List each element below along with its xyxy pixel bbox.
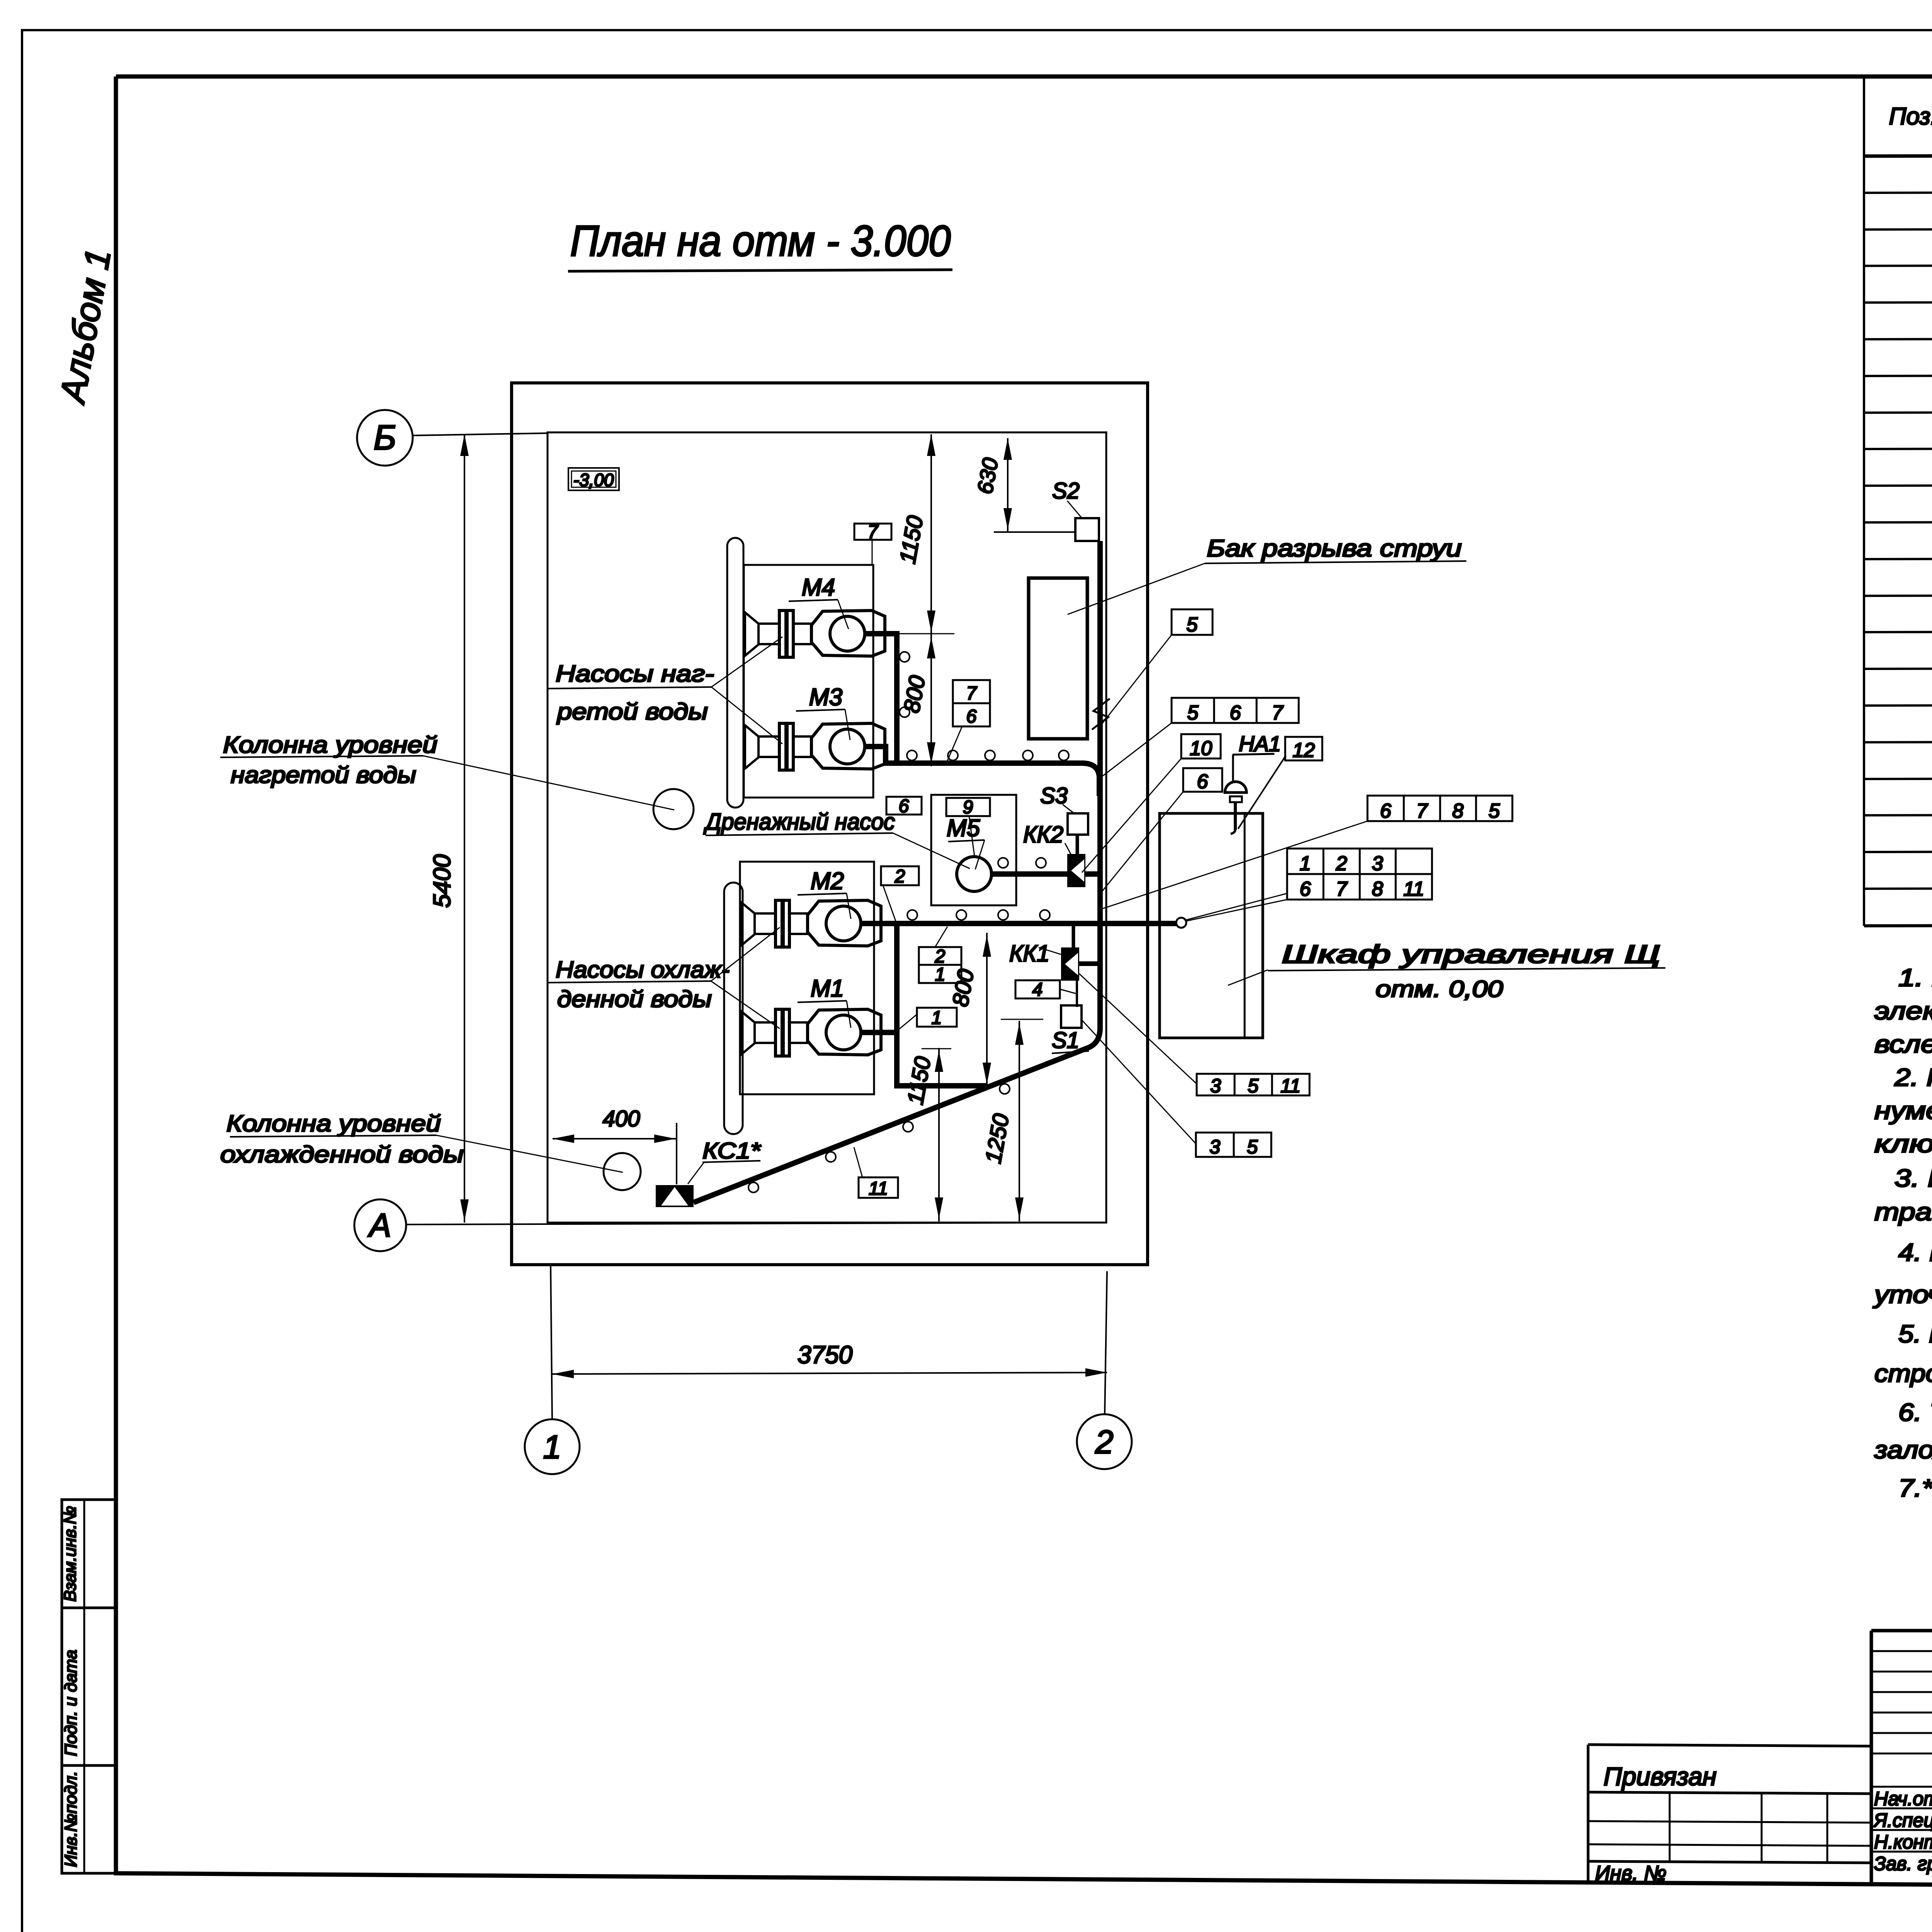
svg-text:S1: S1 — [1052, 1028, 1079, 1053]
junction circles diagonal — [748, 1084, 1010, 1192]
svg-text:800: 800 — [947, 967, 979, 1009]
svg-text:М2: М2 — [811, 868, 844, 895]
svg-text:3: 3 — [1210, 1075, 1221, 1097]
S2 box — [1075, 518, 1099, 541]
svg-text:5400: 5400 — [429, 854, 456, 908]
trass boxes 1 2 3 / 6 7 8 11 — [1287, 849, 1432, 874]
svg-text:800: 800 — [899, 673, 930, 715]
svg-text:S2: S2 — [1052, 478, 1080, 503]
svg-text:2. Позиции монтируемых при: 2. Позиции монтируемых приборов и аппара… — [1894, 1063, 1932, 1091]
svg-text:А: А — [367, 1207, 391, 1244]
inner wall — [548, 432, 1106, 1223]
axis line А — [406, 1223, 1106, 1225]
axis circle 1 — [525, 1419, 580, 1474]
svg-text:отм. 0,00: отм. 0,00 — [1376, 976, 1503, 1002]
svg-text:12: 12 — [1293, 739, 1315, 762]
title block attachment table — [1588, 1745, 1871, 1883]
dimension 1150 lower — [938, 1048, 940, 1221]
svg-text:Н.конт.: Н.конт. — [1874, 1831, 1932, 1853]
wire riser along wall — [694, 541, 1100, 1202]
svg-text:7: 7 — [868, 522, 879, 542]
trass box 4 — [1015, 980, 1060, 998]
trass box 2 — [881, 866, 919, 885]
junction circles M2 run — [907, 910, 1050, 920]
svg-text:2: 2 — [1095, 1424, 1113, 1461]
trass box 1 — [917, 1008, 957, 1027]
svg-text:уточнить при монтаже .: уточнить при монтаже . — [1872, 1281, 1932, 1308]
signature grid — [1871, 1631, 1932, 1889]
KK2 symbol — [1067, 854, 1085, 887]
svg-text:7: 7 — [1336, 878, 1348, 900]
break mark on riser — [1092, 699, 1110, 730]
leader to trass 1 2 3 box — [1186, 893, 1287, 920]
svg-text:Дренажный насос: Дренажный насос — [703, 809, 895, 835]
trass boxes 5 6 7 — [1172, 698, 1214, 723]
svg-text:Альбом 1: Альбом 1 — [53, 246, 119, 407]
dimension 800 upper — [927, 637, 935, 658]
svg-text:5: 5 — [1489, 800, 1500, 822]
svg-text:2: 2 — [895, 866, 905, 887]
svg-text:6: 6 — [1197, 770, 1208, 793]
trass box 6 — [886, 797, 922, 815]
dimension 800 lower — [986, 933, 988, 1087]
upper suction pipe — [727, 538, 743, 808]
trass boxes 3 5 — [1196, 1133, 1234, 1157]
svg-text:НА1: НА1 — [1239, 731, 1281, 756]
svg-text:Я.спец.: Я.спец. — [1873, 1810, 1932, 1831]
left stamp box Инв.№подл. — [62, 1765, 116, 1873]
trass box 10 — [1181, 734, 1221, 759]
svg-text:5. Монтаж электроустановок: 5. Монтаж электроустановок выполнить сог… — [1898, 1320, 1932, 1348]
svg-text:4: 4 — [1032, 980, 1043, 1000]
svg-text:трасс проводок .: трасс проводок . — [1874, 1198, 1932, 1226]
svg-text:План на отм - 3.000: План на отм - 3.000 — [570, 217, 951, 265]
drawing frame — [116, 75, 1932, 79]
wire M5 to KK2 to riser — [991, 871, 1100, 877]
svg-text:1: 1 — [1300, 852, 1311, 875]
dimension 1250 — [1019, 1021, 1020, 1221]
svg-text:1: 1 — [543, 1429, 561, 1466]
svg-text:9: 9 — [963, 797, 973, 818]
svg-text:денной воды: денной воды — [557, 986, 712, 1012]
svg-text:Инв.№подл.: Инв.№подл. — [61, 1771, 80, 1867]
svg-text:1: 1 — [932, 1008, 942, 1028]
svg-text:М4: М4 — [802, 574, 835, 601]
svg-text:3: 3 — [1372, 852, 1383, 875]
svg-text:Инв. №: Инв. № — [1595, 1862, 1667, 1885]
svg-text:строительным нормам и пра: строительным нормам и правилам СНиП 3. 0… — [1874, 1359, 1932, 1387]
tank Бак разрыва струи — [1029, 578, 1087, 739]
svg-text:КС1*: КС1* — [702, 1138, 762, 1163]
svg-text:1: 1 — [935, 964, 946, 985]
wire KK1 drop — [1072, 923, 1075, 947]
svg-text:Нач.отд.: Нач.отд. — [1874, 1788, 1932, 1810]
junction circle at run end — [1176, 918, 1186, 928]
svg-text:1150: 1150 — [895, 514, 928, 566]
pump M3 — [745, 723, 885, 770]
pump M2 — [741, 900, 881, 947]
table headers — [1889, 85, 1932, 141]
svg-text:5: 5 — [1248, 1075, 1259, 1097]
svg-text:8: 8 — [1452, 800, 1464, 822]
dimension 5400 — [464, 434, 465, 1223]
wire M1 to diagonal — [897, 1032, 988, 1086]
elevation mark -3,00 — [568, 468, 619, 490]
svg-text:6: 6 — [1230, 702, 1241, 724]
pump M5 — [957, 857, 992, 891]
svg-text:Насосы наг-: Насосы наг- — [556, 661, 714, 687]
svg-text:М1: М1 — [811, 975, 844, 1002]
svg-text:Шкаф управления Щ: Шкаф управления Щ — [1282, 940, 1660, 968]
junction circles M3 run — [900, 652, 1069, 760]
svg-text:6: 6 — [1380, 800, 1391, 822]
svg-text:6: 6 — [966, 706, 977, 727]
trass boxes 7/6 — [953, 680, 990, 703]
svg-text:7: 7 — [966, 683, 978, 704]
junction circles M5 run — [998, 858, 1046, 868]
svg-text:вследствие нарушения изоляци: вследствие нарушения изоляции, занулить … — [1874, 1030, 1932, 1058]
svg-text:3. В прямоугольниках на вы: 3. В прямоугольниках на выносках указаны… — [1895, 1164, 1932, 1192]
svg-text:400: 400 — [603, 1106, 640, 1131]
lower pump base frame — [740, 862, 874, 1094]
svg-text:Зав. гр.: Зав. гр. — [1874, 1853, 1932, 1874]
svg-text:7.*Устанавливается по проек: 7.*Устанавливается по проекту „АТХ" лист… — [1898, 1474, 1932, 1502]
wire M4 branch — [865, 634, 897, 763]
svg-text:Взам.инв.№: Взам.инв.№ — [61, 1506, 80, 1602]
svg-text:-3,00: -3,00 — [573, 470, 614, 490]
svg-text:11: 11 — [1403, 878, 1424, 900]
svg-text:Поз.: Поз. — [1889, 103, 1932, 130]
parts table grid — [1864, 77, 1932, 926]
svg-text:1150: 1150 — [903, 1055, 936, 1107]
svg-text:4. Размещение проводок, при: 4. Размещение проводок, приборов и аппар… — [1898, 1238, 1932, 1266]
trass box 6 right — [1183, 768, 1222, 792]
dimension 630 — [1007, 438, 1009, 532]
level column circle lower — [604, 1153, 641, 1190]
trass box 7 top — [854, 524, 891, 540]
svg-text:3750: 3750 — [798, 1341, 853, 1369]
wire M2 run to cabinet — [862, 921, 1176, 926]
svg-text:заложить на отм. - 3.050: заложить на отм. - 3.050 . — [1874, 1436, 1932, 1464]
svg-text:Б: Б — [374, 418, 396, 457]
trass box 12 — [1285, 737, 1322, 760]
svg-text:8: 8 — [1372, 878, 1383, 900]
drainage pump M5 enclosure — [931, 795, 1016, 905]
left stamp box Подп. и дата — [62, 1608, 116, 1765]
svg-text:охлажденной воды: охлажденной воды — [220, 1141, 464, 1167]
svg-text:Колонна уровней: Колонна уровней — [226, 1111, 441, 1136]
trass boxes 2/1 — [919, 947, 961, 965]
svg-text:М5: М5 — [947, 815, 980, 842]
wire M3 run — [866, 747, 1099, 796]
svg-text:1. Все металлические нормаль: 1. Все металлические нормально нетоковед… — [1898, 964, 1932, 992]
svg-text:6. Трубы для кабелей про: 6. Трубы для кабелей прокладываемых в по… — [1898, 1398, 1932, 1426]
svg-text:нумерация и тип проводок: нумерация и тип проводок соответствуют с… — [1874, 1097, 1932, 1124]
svg-text:КК2: КК2 — [1023, 821, 1063, 847]
dimension 3750 — [552, 1372, 1107, 1374]
dimension 400 — [553, 1138, 676, 1139]
svg-text:Колонна уровней: Колонна уровней — [223, 732, 437, 758]
svg-text:ключения листы 8,9.: ключения листы 8,9. — [1874, 1130, 1932, 1158]
svg-text:5: 5 — [1187, 614, 1198, 636]
lower suction pipe — [724, 883, 743, 1134]
dimension 1150 upper — [930, 434, 932, 766]
cable outlet KC1 — [656, 1185, 694, 1207]
svg-text:нагретой воды: нагретой воды — [231, 762, 416, 788]
svg-text:Привязан: Привязан — [1604, 1762, 1716, 1791]
svg-text:2: 2 — [1336, 852, 1347, 875]
svg-text:6: 6 — [899, 796, 909, 816]
svg-text:7: 7 — [1417, 800, 1429, 822]
svg-text:электроустановок, могущие ок: электроустановок, могущие оказаться под … — [1874, 997, 1932, 1025]
svg-text:3: 3 — [1209, 1136, 1220, 1158]
svg-text:11: 11 — [1281, 1075, 1301, 1097]
svg-text:Подп. и дата: Подп. и дата — [61, 1650, 80, 1756]
trass boxes 3 5 11 — [1197, 1074, 1235, 1095]
trass box 9 — [946, 798, 990, 816]
svg-text:630: 630 — [973, 456, 1003, 496]
axis circle А — [354, 1199, 406, 1251]
axis circle 2 — [1077, 1414, 1132, 1469]
left stamp box Взам.инв.№ — [62, 1500, 116, 1608]
svg-text:10: 10 — [1190, 737, 1212, 760]
cabinet Шкаф управления — [1160, 813, 1263, 1038]
level column circle upper — [653, 789, 694, 829]
svg-text:2: 2 — [935, 946, 946, 967]
svg-text:КК1: КК1 — [1009, 940, 1049, 966]
svg-text:6: 6 — [1300, 878, 1311, 900]
trass box 11 diagonal — [859, 1177, 898, 1198]
axis circle Б — [357, 410, 413, 466]
svg-text:Насосы охлаж-: Насосы охлаж- — [556, 957, 730, 983]
upper pump base frame — [744, 565, 873, 798]
svg-text:11: 11 — [869, 1179, 888, 1199]
notes text — [1872, 964, 1932, 1502]
svg-text:М3: М3 — [809, 684, 842, 711]
KK1 symbol — [1061, 947, 1079, 981]
wire M1 branch — [862, 923, 897, 1032]
outer wall — [512, 383, 1148, 1265]
trass box 5 — [1172, 609, 1213, 635]
svg-text:5: 5 — [1247, 1136, 1258, 1158]
pump M1 — [741, 1009, 881, 1056]
svg-text:Бак разрыва струи: Бак разрыва струи — [1207, 535, 1462, 562]
S1 box — [1061, 1005, 1082, 1028]
pump M4 — [745, 611, 885, 657]
svg-text:7: 7 — [1272, 702, 1284, 724]
S3 box — [1068, 813, 1088, 835]
svg-text:ретой воды: ретой воды — [556, 699, 708, 724]
svg-text:1250: 1250 — [981, 1112, 1014, 1165]
svg-text:5: 5 — [1187, 702, 1199, 724]
axis line Б — [413, 433, 548, 435]
trass boxes 6 7 8 5 — [1367, 796, 1404, 821]
